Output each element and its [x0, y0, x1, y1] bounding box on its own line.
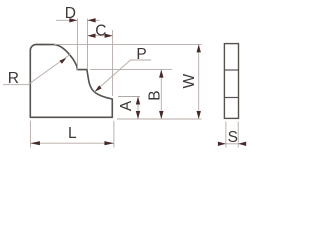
- dimension B line: [160, 70, 162, 119]
- dimension W arrow up: [197, 44, 201, 52]
- extension line curve bottom level: [118, 96, 140, 98]
- dimension W arrow down: [197, 111, 201, 119]
- dimension C arrow right: [105, 34, 113, 38]
- dimension C line: [88, 35, 113, 37]
- dimension B arrow up: [159, 70, 163, 78]
- extension line L right: [113, 121, 115, 148]
- dimension D arrow left: [69, 18, 77, 22]
- dimension D line left tail: [56, 19, 77, 21]
- dimension A line: [137, 97, 139, 120]
- side view split line lower: [224, 97, 238, 99]
- svg-text:P: P: [136, 46, 146, 63]
- dimension A arrow down: [136, 111, 140, 119]
- svg-text:L: L: [68, 125, 77, 142]
- dimension L arrow left: [30, 141, 40, 145]
- dimension S arrow right: [238, 142, 246, 146]
- extension line D left: [76, 19, 78, 71]
- leader line R: [3, 54, 70, 84]
- svg-text:S: S: [228, 129, 238, 146]
- dimension S arrow left: [218, 142, 226, 146]
- dimension A arrow up: [136, 97, 140, 105]
- dimension D line right tail: [88, 19, 100, 21]
- dimension S line: [219, 143, 246, 145]
- dimension W line: [198, 44, 200, 119]
- extension line L left: [29, 121, 31, 148]
- extension line S left: [225, 122, 227, 148]
- svg-text:C: C: [95, 23, 106, 40]
- extension line D right / C left: [87, 19, 89, 70]
- leader P arrowhead: [95, 85, 102, 91]
- svg-text:B: B: [146, 90, 163, 100]
- dimension L line: [30, 142, 114, 144]
- dimension C arrow left: [88, 34, 96, 38]
- extension line S right: [237, 122, 239, 148]
- dimension B arrow down: [159, 111, 163, 119]
- dimension D arrow right: [88, 18, 96, 22]
- leader line P: [94, 60, 151, 92]
- svg-text:A: A: [118, 100, 135, 111]
- extension line C right: [112, 30, 114, 96]
- extension line top edge level: [54, 43, 202, 45]
- side view split line upper: [224, 69, 238, 71]
- svg-text:R: R: [8, 70, 19, 87]
- dimension L arrow right: [104, 141, 114, 145]
- part outline (front view with radius R, pilot step and curve P): [30, 44, 112, 117]
- side view outline: [224, 44, 238, 119]
- svg-text:W: W: [181, 74, 198, 89]
- extension line step level: [90, 69, 172, 71]
- extension line bottom edge level: [117, 118, 202, 120]
- svg-text:D: D: [65, 5, 76, 22]
- leader R arrowhead: [60, 58, 67, 64]
